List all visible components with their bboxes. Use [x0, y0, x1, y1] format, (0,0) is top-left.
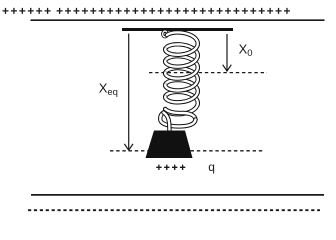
svg-text:X0: X0: [239, 42, 253, 60]
bottom dashed line: [28, 209, 320, 211]
dashed reference line at X0 level: [149, 72, 267, 74]
spring top attachment loop: [163, 31, 168, 37]
charged mass (trapezoid): [146, 131, 193, 159]
top plus charge row: [3, 8, 290, 14]
spring coil: [160, 32, 198, 132]
dashed reference line at Xeq level: [110, 150, 265, 152]
svg-text:q: q: [208, 160, 215, 174]
spring support bar: [122, 28, 233, 31]
X0 dimension arrow: [223, 34, 232, 71]
svg-text:Xeq: Xeq: [99, 80, 118, 98]
bottom plate line: [31, 194, 324, 196]
mass plus charges: [156, 165, 185, 170]
Xeq dimension arrow: [124, 34, 133, 151]
top charged plate line: [31, 19, 325, 21]
